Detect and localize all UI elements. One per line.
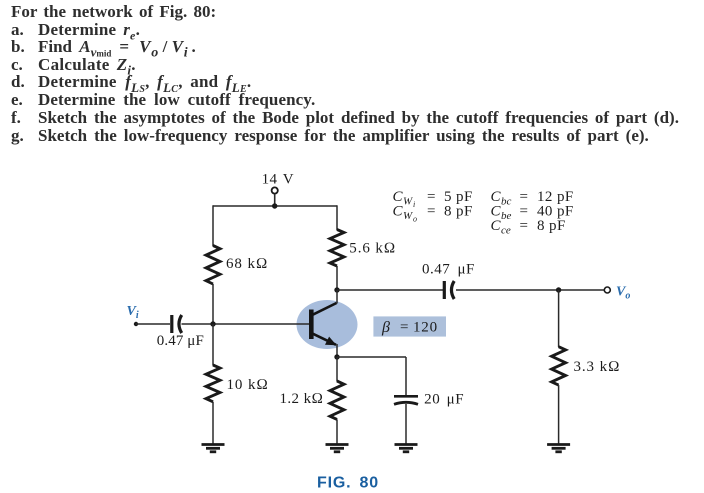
ground load — [547, 445, 570, 452]
label 68 kOhm — [226, 256, 268, 272]
wire emitter to bypass — [337, 357, 406, 395]
transistor Q1 symbol — [309, 303, 337, 345]
wire right branch to collector node — [336, 266, 338, 290]
svg-text:0.47 μF: 0.47 μF — [422, 262, 475, 278]
svg-text:i: i — [413, 200, 415, 209]
svg-text:0.47 μF: 0.47 μF — [157, 333, 204, 349]
svg-text:68 kΩ: 68 kΩ — [226, 256, 268, 272]
svg-text:120: 120 — [413, 320, 438, 336]
wire emitter branch lower — [336, 357, 338, 382]
svg-text:W: W — [403, 196, 413, 208]
svg-text:3.3 kΩ: 3.3 kΩ — [574, 359, 621, 375]
wire right branch upper — [336, 205, 338, 230]
wire output right — [456, 289, 605, 291]
ground bypass — [395, 445, 418, 452]
svg-text:1.2 kΩ: 1.2 kΩ — [280, 391, 324, 407]
output terminal Vo — [604, 287, 610, 293]
label Cbe = 40 pF — [491, 204, 574, 223]
wire load branch upper — [558, 290, 560, 347]
svg-text:Vo: Vo — [616, 285, 630, 302]
label Cbc = 12 pF — [491, 189, 574, 208]
wire load branch lower — [558, 385, 560, 444]
svg-text:FIG. 80: FIG. 80 — [317, 474, 379, 491]
transistor Q1 shaded ellipse — [297, 300, 358, 349]
supply terminal 14V — [272, 187, 278, 206]
input terminal Vi — [134, 322, 138, 326]
svg-text:be: be — [501, 210, 512, 222]
svg-text:bc: bc — [501, 196, 512, 208]
svg-text:=: = — [427, 204, 435, 220]
ground emitter — [326, 445, 349, 452]
svg-text:o: o — [413, 215, 417, 224]
label CWo = 8 pF — [393, 204, 473, 224]
svg-text:20 μF: 20 μF — [424, 392, 464, 408]
beta label box — [373, 316, 446, 336]
svg-text:8 pF: 8 pF — [537, 218, 566, 234]
svg-text:C: C — [491, 218, 502, 234]
svg-text:5.6 kΩ: 5.6 kΩ — [349, 241, 396, 257]
capacitor Cc 0.47uF output — [444, 281, 454, 299]
svg-text:=: = — [400, 320, 408, 336]
wire input left — [136, 323, 170, 325]
svg-text:=: = — [520, 218, 528, 234]
label Cce = 8 pF — [491, 218, 566, 237]
label 1.2 kOhm — [280, 391, 324, 407]
label 3.3 kOhm — [574, 359, 621, 375]
node output junction — [556, 287, 561, 292]
wire top rail — [213, 205, 337, 207]
node collector — [334, 287, 339, 292]
label 20uF — [424, 392, 464, 408]
wire left branch lower — [212, 324, 214, 366]
wire left branch upper — [212, 205, 214, 246]
label 14 V — [262, 172, 294, 188]
label 10 kOhm — [227, 377, 269, 393]
label Vo — [616, 285, 630, 302]
capacitor CE 20uF bypass — [394, 396, 418, 404]
label Vi — [127, 304, 139, 321]
resistor RE 1.2k — [330, 381, 344, 419]
node input junction — [210, 321, 215, 326]
wire collector stub — [336, 290, 338, 304]
wire RE to ground — [336, 419, 338, 444]
wire output left — [337, 289, 443, 291]
label CWi = 5 pF — [393, 189, 473, 209]
svg-text:Vi: Vi — [127, 304, 139, 321]
resistor RL 3.3k — [552, 347, 566, 385]
figure caption FIG. 80 — [317, 474, 379, 491]
wire left branch mid — [212, 284, 214, 324]
node emitter — [334, 354, 339, 359]
svg-text:10 kΩ: 10 kΩ — [227, 377, 269, 393]
capacitor Cs 0.47uF input — [172, 315, 182, 333]
svg-text:ce: ce — [501, 225, 511, 237]
svg-text:β: β — [381, 319, 390, 336]
label 0.47uF output — [422, 262, 475, 278]
resistor R3 5.6k — [330, 230, 344, 267]
svg-text:8 pF: 8 pF — [444, 204, 473, 220]
label 5.6 kOhm — [349, 241, 396, 257]
resistor R2 10k — [206, 365, 220, 402]
label 0.47uF input — [157, 333, 204, 349]
wire emitter stub — [336, 344, 338, 357]
node supply junction — [272, 203, 277, 208]
ground left — [202, 445, 225, 452]
svg-text:C: C — [393, 204, 404, 220]
svg-text:W: W — [403, 210, 413, 222]
wire input right to base — [182, 323, 310, 325]
wire to ground left — [212, 402, 214, 444]
problem statement text — [11, 3, 216, 20]
wire CE to ground — [405, 404, 407, 444]
resistor R1 68k — [206, 246, 220, 285]
svg-text:14 V: 14 V — [262, 172, 294, 188]
